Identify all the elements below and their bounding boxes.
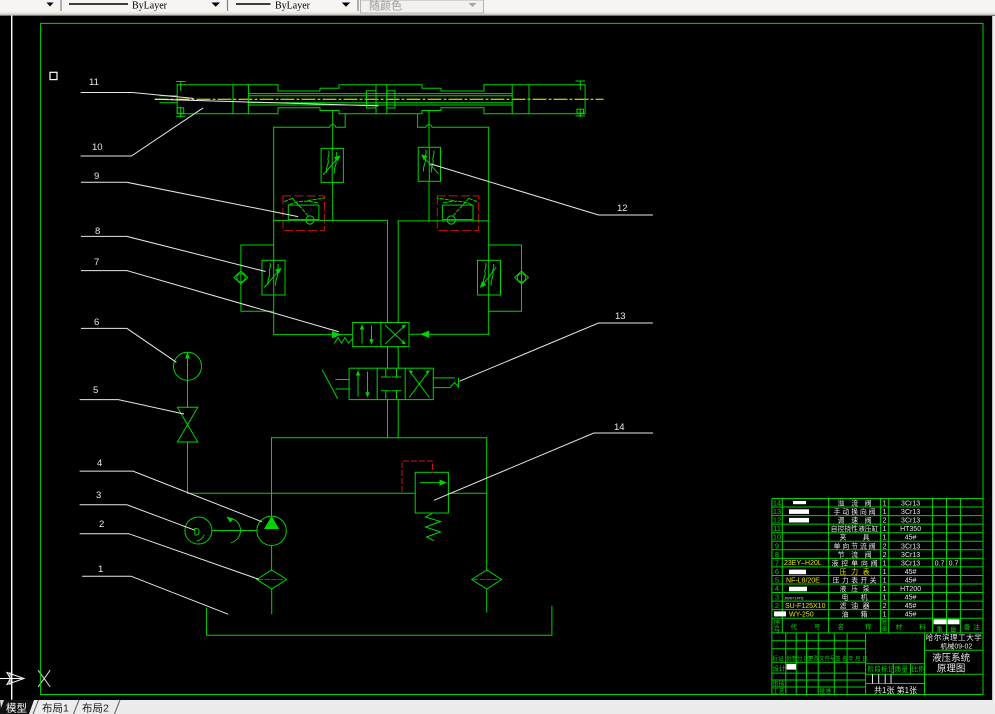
linetype combo 1 dropdown arrow [211, 3, 220, 7]
svg-text:14: 14 [614, 422, 625, 433]
svg-text:自控挠性液压缸: 自控挠性液压缸 [831, 524, 879, 533]
left piston lines [233, 85, 248, 114]
svg-text:5: 5 [93, 385, 98, 396]
svg-text:ByLayer: ByLayer [275, 1, 311, 12]
svg-text:SU-F125X10: SU-F125X10 [785, 603, 826, 610]
balloon 7 leader [81, 271, 338, 332]
svg-text:1: 1 [883, 560, 887, 567]
solenoid valve 7 (upper 2-position directional valve) [335, 323, 410, 347]
spring of valve 7 [335, 338, 353, 344]
svg-text:2: 2 [883, 518, 887, 525]
lineweight combo 2 line sample [236, 3, 271, 5]
svg-text:3Cr13: 3Cr13 [901, 552, 920, 559]
right window edge strip [992, 16, 995, 700]
stepped casing outline bottom [278, 108, 484, 114]
svg-text:45#: 45# [905, 578, 917, 585]
svg-text:代 号: 代 号 [791, 622, 822, 631]
svg-text:节 流 阀: 节 流 阀 [838, 550, 872, 559]
wire gauge to valve 5 [187, 380, 189, 407]
svg-text:滤 油 器: 滤 油 器 [840, 601, 870, 610]
left cylinder barrel [177, 85, 278, 114]
svg-text:1: 1 [883, 586, 887, 593]
svg-text:数: 数 [882, 619, 888, 627]
svg-text:压力表开关: 压力表开关 [833, 576, 877, 585]
svg-text:HT200: HT200 [900, 586, 921, 593]
model tab (active, dark) [0, 700, 34, 714]
svg-text:12: 12 [617, 203, 628, 214]
balloon 13 leader [460, 323, 652, 381]
balloon 9 leader [81, 182, 297, 216]
svg-text:1: 1 [883, 509, 887, 516]
toolbar separator [357, 0, 359, 11]
pilot line of relief valve (red dashed) [402, 461, 433, 492]
piston rod lines [248, 94, 512, 105]
wire valve 5 to pressure rail [187, 442, 189, 493]
tab separator slash [115, 700, 121, 714]
svg-text:审核: 审核 [773, 680, 785, 688]
right cylinder port pipe [428, 111, 430, 147]
wire pump suction [271, 546, 273, 571]
left cylinder port pipe [332, 111, 334, 148]
relief valve 14 [402, 461, 448, 541]
svg-text:3Cr13: 3Cr13 [901, 560, 920, 567]
svg-text:2: 2 [99, 519, 104, 530]
svg-text:1: 1 [883, 526, 887, 533]
wire right throttle drop [428, 182, 430, 221]
svg-text:JW0714T6: JW0714T6 [784, 596, 804, 601]
left docked palette edge line [11, 16, 13, 699]
svg-text:1: 1 [98, 564, 103, 575]
linetype combo 1 line sample [69, 3, 128, 5]
svg-text:7: 7 [94, 257, 99, 268]
svg-text:手动换向阀: 手动换向阀 [834, 507, 876, 516]
svg-text:模型: 模型 [6, 702, 27, 714]
right port branch with hop [418, 114, 489, 128]
svg-text:原理图: 原理图 [937, 663, 966, 674]
tab separator slash [74, 700, 80, 714]
svg-text:名 称: 名 称 [838, 622, 873, 631]
BOM yellow codes [784, 560, 826, 618]
left anchor support [177, 82, 186, 118]
svg-text:布局1: 布局1 [42, 703, 69, 714]
wire valve7 to valve13 port A [387, 347, 389, 369]
speed control valve 12a (left upper throttle) [321, 148, 343, 182]
svg-text:3: 3 [96, 490, 101, 501]
svg-text:材 料: 材 料 [896, 622, 927, 631]
svg-text:9: 9 [94, 171, 99, 182]
balloon 6 leader [81, 328, 176, 362]
cylinder centerline (yellow dash-dot) [155, 98, 603, 100]
svg-text:液 压 泵: 液 压 泵 [840, 584, 870, 593]
balloon 12 leader [431, 164, 652, 215]
wire junction line right [398, 220, 489, 222]
pressure gauge 6 [174, 352, 202, 380]
oil tank 1 [206, 606, 552, 635]
svg-text:年 月 日: 年 月 日 [848, 655, 868, 663]
pilot operated check valve 9a (left, red dashed enclosure) [283, 196, 324, 231]
detent of valve 13 [433, 378, 458, 388]
lever of valve 13 [323, 370, 350, 398]
svg-text:45#: 45# [905, 612, 917, 619]
balloon 11 leader [81, 93, 193, 99]
BOM name column [831, 499, 879, 619]
wire valve7 to valve13 port B [397, 347, 399, 369]
wire left throttle drop [332, 183, 334, 220]
svg-text:机械09-02: 机械09-02 [940, 641, 972, 650]
spring of relief valve 14 [426, 513, 441, 541]
shutoff valve 5 [177, 407, 197, 442]
svg-text:45#: 45# [905, 569, 917, 576]
svg-text:2: 2 [883, 552, 887, 559]
svg-text:45#: 45# [905, 603, 917, 610]
revision block verticals [786, 633, 925, 695]
svg-text:8: 8 [95, 226, 100, 237]
electric motor 3 [185, 517, 212, 544]
revision block horizontals [772, 641, 866, 687]
white cell tick marks [873, 674, 892, 683]
svg-text:11: 11 [89, 77, 99, 88]
BOM header row [774, 618, 980, 634]
svg-text:随颜色: 随颜色 [369, 0, 402, 13]
svg-text:液压系统: 液压系统 [932, 652, 971, 664]
svg-text:压 力 表: 压 力 表 [840, 567, 870, 576]
svg-text:1: 1 [883, 578, 887, 585]
throttle valve 8a with bypass (left lower) [234, 245, 285, 311]
wire center port line A [387, 220, 389, 322]
color combo (disabled) box [361, 0, 484, 13]
svg-text:调 速 阀: 调 速 阀 [838, 516, 872, 525]
wire left port of valve 7 with arrow [274, 334, 353, 336]
svg-text:号: 号 [774, 626, 781, 634]
svg-text:1: 1 [883, 612, 887, 619]
svg-text:13: 13 [615, 311, 626, 322]
speed control valve 12b (right upper throttle) [418, 147, 440, 181]
svg-text:NF-L8/20E: NF-L8/20E [786, 577, 820, 584]
BOM code column redacted blocks [774, 501, 809, 616]
hydraulic pump 4 [257, 516, 286, 545]
BOM material column [900, 501, 921, 619]
balloon 10 leader [81, 108, 203, 156]
svg-text:3Cr13: 3Cr13 [901, 543, 920, 550]
wire left loop vertical [273, 127, 275, 334]
svg-text:1: 1 [883, 501, 887, 508]
BOM item numbers column [773, 499, 781, 619]
svg-text:2: 2 [883, 543, 887, 550]
revision block labels [773, 655, 868, 663]
balloon 3 leader [80, 505, 194, 530]
toolbar separator [227, 0, 229, 11]
right piston lines [512, 85, 529, 114]
svg-text:比例: 比例 [912, 665, 926, 674]
rotation direction arc [232, 519, 241, 543]
svg-text:4: 4 [97, 458, 102, 469]
svg-text:3Cr13: 3Cr13 [901, 518, 920, 525]
crosshair X cursor [38, 671, 50, 687]
svg-text:0.7: 0.7 [949, 560, 959, 567]
wire right port of valve 7 with arrow [409, 333, 489, 335]
svg-text:签 名: 签 名 [835, 655, 848, 663]
svg-text:单向节流阀: 单向节流阀 [834, 541, 876, 550]
svg-text:更改文件号: 更改文件号 [808, 655, 836, 663]
svg-text:量: 量 [882, 626, 888, 633]
balloon 5 leader [80, 400, 183, 414]
svg-text:1: 1 [883, 535, 887, 542]
toolbar [0, 0, 995, 16]
svg-text:1: 1 [883, 595, 887, 602]
toolbar separator [60, 0, 62, 11]
svg-text:3Cr13: 3Cr13 [901, 501, 920, 508]
wire right loop vertical [488, 127, 490, 334]
svg-text:液控单向阀: 液控单向阀 [832, 558, 878, 567]
filter (right) [472, 570, 502, 612]
left rod stub [160, 96, 177, 103]
BOM qty column [883, 501, 887, 619]
pickbox cursor square [50, 72, 57, 79]
left port branch with hop [274, 114, 346, 128]
balloon 1 leader [83, 576, 228, 614]
wire main return rail [272, 437, 487, 439]
white rod highlight line [156, 99, 379, 106]
svg-text:序: 序 [774, 618, 781, 627]
right section lines [925, 650, 984, 674]
svg-text:45#: 45# [905, 535, 917, 542]
svg-text:油 箱: 油 箱 [842, 610, 868, 619]
svg-text:3Cr13: 3Cr13 [901, 509, 920, 516]
tab separator slash [33, 700, 39, 714]
balloon 14 leader [434, 433, 652, 500]
svg-text:溢 流 阀: 溢 流 阀 [838, 499, 872, 508]
svg-text:45#: 45# [905, 595, 917, 602]
svg-text:HT350: HT350 [900, 526, 921, 533]
pilot operated check valve 9b (right, red dashed enclosure) [437, 196, 478, 231]
svg-text:质量: 质量 [895, 665, 909, 674]
center gland block left [367, 91, 377, 108]
svg-text:0.7: 0.7 [935, 560, 945, 567]
shaft motor to pump [212, 530, 257, 532]
svg-text:批准: 批准 [820, 688, 832, 696]
wire pressure rail [188, 492, 487, 494]
manual valve 13 (lower 3-position directional valve) [323, 368, 459, 399]
right anchor support [576, 81, 585, 117]
UCS arrow icon bottom left [0, 673, 24, 685]
svg-text:共1张 第1张: 共1张 第1张 [874, 685, 917, 695]
svg-text:10: 10 [92, 142, 103, 153]
stepped casing outline top [278, 85, 484, 91]
wire valve13 bottom ports [388, 400, 399, 438]
toolbar dropdown arrow (layer control) [47, 3, 54, 7]
right cylinder barrel [484, 85, 585, 114]
wire rail down to pump [271, 438, 273, 517]
wire center port line B [397, 221, 399, 323]
center block verticals [376, 85, 387, 114]
svg-text:设计: 设计 [773, 664, 787, 673]
balloon 2 leader [80, 534, 258, 579]
center gland block right [387, 91, 395, 108]
filter 2 (left) [257, 570, 287, 614]
svg-text:阶段标记: 阶段标记 [868, 665, 895, 674]
BOM table outer verticals [772, 499, 961, 695]
svg-text:23EY–H20L: 23EY–H20L [784, 560, 822, 567]
svg-text:D: D [194, 528, 201, 540]
balloon 4 leader [80, 471, 261, 521]
svg-text:夹 具: 夹 具 [840, 533, 870, 542]
throttle valve 8b with bypass (right lower) [478, 245, 529, 311]
svg-text:6: 6 [94, 317, 99, 328]
middle section lines [866, 664, 925, 684]
svg-text:标记: 标记 [773, 655, 785, 663]
wire junction line left (check valve rail) [274, 219, 388, 221]
svg-text:电 机: 电 机 [842, 593, 868, 602]
svg-text:工艺: 工艺 [773, 688, 785, 696]
svg-text:2: 2 [883, 603, 887, 610]
lineweight combo 2 dropdown arrow [342, 3, 351, 7]
BOM table horizontals [772, 499, 983, 633]
svg-text:备 注: 备 注 [964, 622, 981, 631]
status bar [0, 700, 995, 714]
svg-text:WY-250: WY-250 [789, 612, 814, 619]
balloon 8 leader [81, 236, 265, 271]
svg-text:布局2: 布局2 [82, 703, 109, 714]
wire rail down to right filter [486, 438, 488, 570]
color combo disabled arrow [468, 3, 476, 7]
svg-text:哈尔滨理工大学: 哈尔滨理工大学 [926, 632, 983, 642]
svg-text:1: 1 [883, 569, 887, 576]
svg-text:ByLayer: ByLayer [132, 1, 168, 12]
